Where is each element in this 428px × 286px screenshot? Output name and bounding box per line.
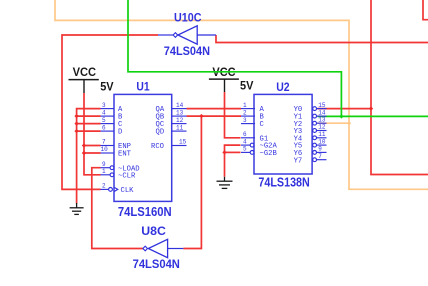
U2 pin 14 Y1	[294, 109, 327, 121]
wire red right vertical to bottom-right	[371, 0, 428, 175]
U1 pin 14 QA	[156, 102, 187, 114]
svg-text:13: 13	[176, 109, 184, 116]
junction red G2B	[222, 150, 226, 154]
power VCC symbol U2	[209, 65, 239, 92]
U1 pin 1 ~CLR	[101, 168, 136, 180]
svg-text:10: 10	[318, 138, 326, 145]
svg-text:5V: 5V	[240, 78, 253, 92]
svg-text:4: 4	[243, 138, 247, 145]
svg-text:U10C: U10C	[174, 10, 202, 24]
U2 pin 2 B	[241, 109, 265, 121]
U2 pin 9 Y6	[294, 146, 327, 158]
U1 pin 2 CLK	[101, 183, 135, 195]
U1 pin 7 ENP	[101, 139, 131, 151]
inverter U8C 74LS04N	[143, 239, 184, 257]
svg-text:74LS04N: 74LS04N	[133, 257, 180, 271]
wire red top-right corner	[423, 0, 428, 20]
svg-text:12: 12	[318, 124, 326, 131]
U1 pin 13 QB	[156, 109, 187, 121]
svg-text:D: D	[118, 129, 122, 137]
chip U1 74LS160N body	[114, 94, 172, 201]
U2 pin 5 ~G2B	[241, 146, 277, 158]
U2 pin 13 Y2	[294, 116, 327, 128]
svg-text:14: 14	[318, 109, 326, 116]
svg-text:5: 5	[243, 146, 247, 153]
svg-text:~CLR: ~CLR	[118, 172, 136, 180]
junction red bus-D	[74, 129, 78, 133]
junction red VCC-ENT	[82, 151, 86, 155]
svg-text:5V: 5V	[100, 80, 113, 94]
wire red VCC U1 to ENP ENT ~CLR	[84, 93, 101, 175]
svg-text:74LS138N: 74LS138N	[258, 175, 309, 190]
svg-text:1: 1	[102, 168, 106, 175]
svg-text:9: 9	[102, 161, 106, 168]
svg-text:15: 15	[179, 139, 187, 146]
U2 pin 3 C	[241, 117, 265, 129]
svg-text:7: 7	[102, 139, 106, 146]
svg-text:RCO: RCO	[151, 143, 164, 151]
svg-text:4: 4	[102, 109, 106, 116]
svg-text:15: 15	[318, 102, 326, 109]
svg-text:U8C: U8C	[141, 224, 166, 238]
wire green net Y1	[128, 0, 341, 116]
svg-text:74LS04N: 74LS04N	[164, 44, 210, 58]
junction red at QB branch	[199, 114, 203, 118]
svg-text:11: 11	[176, 124, 184, 131]
svg-text:1: 1	[243, 102, 247, 109]
svg-text:U2: U2	[276, 80, 290, 94]
svg-text:12: 12	[176, 117, 184, 124]
wire red QB branch down to U8C input	[183, 116, 201, 248]
U1 pin 12 QC	[156, 117, 187, 129]
U2 pin 6 G1	[241, 131, 268, 143]
wire orange Y2 pin branch	[318, 122, 350, 124]
chip U2 74LS138N body	[254, 94, 312, 174]
svg-text:6: 6	[243, 131, 247, 138]
U2 pin 4 ~G2A	[241, 138, 277, 150]
junction red bus-C	[74, 121, 78, 125]
junction red bus-B	[74, 114, 78, 118]
svg-text:10: 10	[101, 146, 109, 153]
svg-text:7: 7	[318, 153, 322, 160]
U1 pin 5 C	[101, 117, 124, 129]
U1 pin 6 D	[101, 124, 123, 136]
svg-text:5: 5	[102, 117, 106, 124]
svg-text:6: 6	[102, 124, 106, 131]
svg-text:2: 2	[102, 183, 106, 190]
svg-text:U1: U1	[136, 79, 149, 93]
junction green at Y1	[339, 114, 343, 118]
U2 pin 15 Y0	[294, 102, 327, 114]
junction orange at Y2	[347, 121, 351, 125]
svg-text:ENT: ENT	[118, 151, 132, 159]
U1 pin 15 RCO	[151, 139, 187, 151]
U2 pin 10 Y5	[294, 138, 327, 150]
wire red VCC U2 to G1	[225, 92, 241, 138]
junction red at Y0	[369, 106, 373, 110]
U1 pin 9 ~LOAD	[101, 161, 140, 173]
U1 pin 4 B	[101, 109, 124, 121]
wire red QA to U2 A	[187, 108, 242, 110]
svg-text:VCC: VCC	[73, 65, 97, 79]
wire red QB to U2 B	[187, 115, 242, 117]
inverter U10C 74LS04N	[158, 26, 216, 44]
ground symbol U2	[217, 177, 233, 189]
junction red VCC-ENP	[82, 143, 86, 147]
power VCC symbol U1	[69, 65, 99, 93]
U1 pin 3 A	[101, 102, 124, 114]
svg-text:74LS160N: 74LS160N	[118, 204, 172, 219]
U1 pin 10 ENT	[101, 146, 132, 158]
wire red U10C input net	[216, 35, 428, 43]
wire red Y0 net	[318, 108, 372, 110]
svg-text:~G2B: ~G2B	[260, 150, 278, 158]
wire red U8C output to U1 ~LOAD	[92, 168, 143, 249]
U2 pin 1 A	[241, 102, 265, 114]
svg-text:14: 14	[176, 102, 184, 109]
svg-text:QD: QD	[156, 129, 165, 137]
wire green Y1 horizontal	[318, 115, 428, 117]
wire red U2 G2A G2B to ground	[225, 145, 241, 177]
ground symbol U1	[70, 203, 84, 214]
U1 pin 11 QD	[156, 124, 187, 136]
svg-text:13: 13	[318, 116, 326, 123]
svg-text:3: 3	[243, 117, 247, 124]
svg-text:Y7: Y7	[294, 157, 303, 165]
svg-text:2: 2	[243, 109, 247, 116]
wire red U10C output to U1 CLK	[62, 35, 158, 189]
svg-text:3: 3	[102, 102, 106, 109]
svg-text:9: 9	[318, 146, 322, 153]
U2 pin 11 Y4	[294, 131, 327, 143]
wire red U1 ABCD bus to ground	[77, 109, 101, 204]
U2 pin 7 Y7	[294, 153, 327, 165]
wire orange net Y2	[55, 0, 428, 189]
svg-text:11: 11	[318, 131, 326, 138]
U2 pin 12 Y3	[294, 124, 327, 136]
svg-text:C: C	[260, 121, 265, 129]
svg-text:CLK: CLK	[121, 187, 135, 195]
